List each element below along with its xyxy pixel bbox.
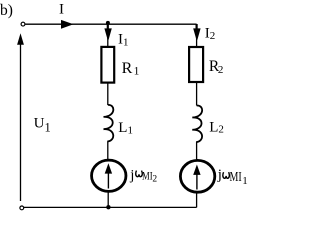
svg-text:I: I (59, 2, 64, 18)
svg-text:2: 2 (152, 174, 157, 184)
svg-text:j: j (129, 167, 134, 183)
svg-text:R: R (122, 60, 133, 77)
svg-text:MI: MI (142, 169, 153, 183)
svg-text:MI: MI (230, 169, 243, 184)
svg-text:b): b) (0, 2, 13, 19)
svg-text:2: 2 (218, 64, 224, 76)
svg-text:1: 1 (242, 175, 248, 187)
svg-text:j: j (217, 167, 222, 183)
svg-text:1: 1 (134, 66, 140, 78)
